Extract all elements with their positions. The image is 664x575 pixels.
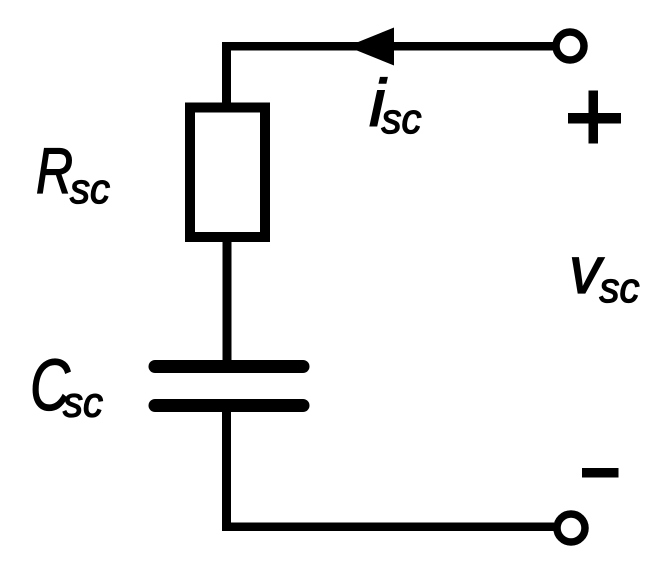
wire bottom horizontal — [222, 523, 554, 532]
label R_sc — [36, 135, 110, 212]
wire top horizontal — [222, 42, 554, 51]
capacitor C_sc bottom plate — [155, 399, 303, 412]
wire capacitor to bottom wire — [222, 406, 231, 531]
svg-text:sc: sc — [600, 264, 640, 311]
plus sign — [568, 91, 621, 144]
svg-text:sc: sc — [63, 379, 103, 426]
label v_sc — [569, 233, 640, 311]
resistor R_sc — [190, 108, 265, 238]
terminal bottom right — [557, 514, 585, 542]
arrowhead of current i_sc — [347, 28, 394, 66]
label C_sc — [30, 345, 103, 426]
wire resistor to capacitor — [223, 242, 232, 362]
minus sign — [582, 468, 619, 478]
capacitor C_sc top plate — [155, 360, 303, 373]
terminal top right — [556, 32, 584, 60]
wire top vertical — [222, 42, 231, 104]
svg-text:R: R — [36, 135, 73, 207]
svg-text:sc: sc — [70, 165, 110, 212]
svg-text:sc: sc — [382, 95, 422, 142]
label i_sc — [369, 65, 422, 142]
